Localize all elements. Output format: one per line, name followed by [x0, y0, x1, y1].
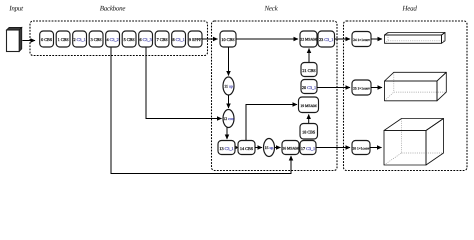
svg-text:Neck: Neck — [264, 5, 279, 13]
svg-text:1 CBS: 1 CBS — [58, 37, 70, 42]
svg-text:8 C3_1: 8 C3_1 — [172, 37, 184, 42]
svg-text:6 C3_3: 6 C3_3 — [139, 37, 151, 42]
svg-text:2 C3_1: 2 C3_1 — [73, 37, 85, 42]
svg-text:19 MSAM: 19 MSAM — [300, 104, 317, 108]
svg-text:Head: Head — [401, 5, 417, 13]
svg-text:3 CBS: 3 CBS — [91, 37, 103, 42]
svg-text:5 CBS: 5 CBS — [124, 37, 136, 42]
svg-text:9 SPPF: 9 SPPF — [189, 37, 202, 42]
svg-text:14 CBS: 14 CBS — [240, 146, 254, 151]
svg-text:26 1×1conv: 26 1×1conv — [353, 147, 370, 151]
svg-text:18 CBS: 18 CBS — [302, 130, 316, 135]
svg-text:24 1×1conv: 24 1×1conv — [353, 38, 370, 42]
svg-text:25 1×1conv: 25 1×1conv — [353, 87, 370, 91]
svg-text:20 C3_1: 20 C3_1 — [302, 85, 316, 90]
svg-text:12 con: 12 con — [223, 117, 234, 121]
svg-text:21 CBS: 21 CBS — [302, 68, 316, 73]
svg-text:4 C3_2: 4 C3_2 — [106, 37, 118, 42]
svg-text:23 C3_1: 23 C3_1 — [319, 37, 333, 42]
svg-text:7 CBS: 7 CBS — [157, 37, 169, 42]
svg-text:0 CBS: 0 CBS — [41, 37, 53, 42]
svg-text:11 up: 11 up — [224, 85, 233, 89]
svg-text:16 MSAM: 16 MSAM — [282, 147, 299, 151]
svg-text:15 up: 15 up — [265, 146, 274, 150]
svg-text:17 C3_1: 17 C3_1 — [301, 146, 315, 151]
svg-text:Input: Input — [8, 5, 24, 13]
svg-text:10 CBS: 10 CBS — [221, 37, 235, 42]
svg-text:Backbone: Backbone — [100, 5, 126, 13]
svg-text:22 MSAM: 22 MSAM — [300, 38, 317, 42]
svg-text:13 C3_1: 13 C3_1 — [219, 146, 233, 151]
